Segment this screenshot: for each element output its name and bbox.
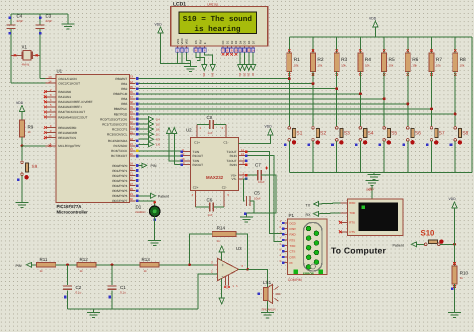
svg-text:ERROR: ERROR [303, 272, 315, 276]
svg-text:MAX232: MAX232 [206, 175, 224, 180]
svg-text:R8: R8 [460, 57, 466, 63]
svg-text:1k: 1k [144, 269, 148, 273]
svg-text:34: 34 [130, 80, 134, 84]
svg-text:C6: C6 [207, 198, 213, 203]
svg-text:RB1: RB1 [121, 82, 127, 86]
svg-text:C2-: C2- [222, 186, 227, 190]
svg-text:RS: RS [194, 40, 198, 44]
svg-text:RA4/T0CKI/C1OUT: RA4/T0CKI/C1OUT [58, 110, 85, 114]
svg-text:10k: 10k [294, 63, 299, 67]
svg-text:C1: C1 [120, 285, 126, 290]
svg-text:PIN: PIN [151, 164, 157, 168]
svg-text:RB3/PGM: RB3/PGM [113, 92, 127, 96]
svg-text:VEE: VEE [185, 39, 189, 45]
svg-text:23: 23 [130, 137, 134, 141]
svg-text:RD5/PSP5: RD5/PSP5 [112, 189, 127, 193]
svg-text:10k: 10k [365, 63, 370, 67]
svg-text:RD7/PSP7: RD7/PSP7 [112, 199, 127, 203]
svg-text:S3: S3 [344, 130, 350, 136]
svg-text:36: 36 [130, 90, 134, 94]
svg-text:27: 27 [130, 182, 134, 186]
svg-text:1k: 1k [460, 276, 464, 280]
svg-text:U2: U2 [186, 128, 192, 133]
svg-text:VDD: VDD [155, 23, 163, 27]
svg-text:RI: RI [290, 261, 293, 265]
svg-text:RE2/AN7/CS: RE2/AN7/CS [58, 136, 76, 140]
svg-text:28: 28 [130, 187, 134, 191]
svg-text:RTS: RTS [290, 238, 296, 242]
svg-text:PIC16F877A: PIC16F877A [57, 204, 82, 209]
svg-text:D1: D1 [136, 205, 142, 210]
svg-text:R12: R12 [80, 257, 89, 262]
svg-text:18: 18 [130, 130, 134, 134]
svg-text:D6: D6 [156, 128, 160, 132]
svg-text:R2: R2 [317, 57, 323, 63]
svg-text:4MHz: 4MHz [22, 63, 30, 67]
svg-text:R2OUT: R2OUT [193, 163, 204, 167]
svg-text:VSS: VSS [176, 39, 180, 45]
svg-text:U3: U3 [236, 246, 242, 251]
svg-text:RXD: RXD [349, 201, 355, 205]
svg-text:S2: S2 [320, 130, 326, 136]
svg-text:Patient: Patient [393, 244, 404, 248]
svg-text:26: 26 [130, 152, 134, 156]
svg-text:10k: 10k [412, 63, 417, 67]
svg-text:13: 13 [48, 75, 52, 79]
svg-text:33: 33 [130, 75, 134, 79]
svg-text:11: 11 [239, 50, 242, 53]
svg-text:is hearing: is hearing [194, 25, 241, 34]
svg-text:C2+: C2+ [193, 186, 199, 190]
svg-text:RD6/PSP6: RD6/PSP6 [112, 194, 127, 198]
svg-text:20: 20 [130, 167, 134, 171]
svg-text:CTS: CTS [290, 250, 296, 254]
svg-text:D4: D4 [238, 73, 242, 77]
svg-text:10uF: 10uF [258, 180, 265, 184]
svg-text:22: 22 [130, 177, 134, 181]
svg-text:1k: 1k [28, 130, 32, 134]
svg-text:14: 14 [252, 50, 255, 53]
svg-text:R4: R4 [365, 57, 371, 63]
svg-text:TXD: TXD [290, 244, 296, 248]
svg-text:TX: TX [306, 203, 311, 207]
svg-text:14: 14 [48, 79, 52, 83]
svg-text:C3: C3 [46, 14, 52, 19]
svg-text:DTR: DTR [290, 255, 296, 259]
svg-text:C4: C4 [17, 14, 23, 19]
svg-text:U1: U1 [57, 69, 63, 74]
svg-text:25: 25 [130, 147, 134, 151]
svg-text:R11: R11 [40, 257, 48, 262]
svg-text:VDD: VDD [16, 101, 24, 105]
svg-text:RS: RS [156, 138, 160, 142]
svg-text:24: 24 [130, 142, 134, 146]
svg-text:C2: C2 [76, 285, 82, 290]
svg-text:D7: D7 [251, 73, 255, 77]
svg-text:E: E [203, 42, 207, 44]
svg-text:RD1/PSP1: RD1/PSP1 [112, 169, 127, 173]
svg-text:12: 12 [243, 50, 246, 53]
svg-text:RC0/T1OSO/T1CKI: RC0/T1OSO/T1CKI [100, 117, 127, 121]
svg-text:R10: R10 [460, 271, 469, 276]
svg-text:R1OUT: R1OUT [193, 154, 204, 158]
svg-text:C8: C8 [207, 115, 213, 120]
svg-text:RXD: RXD [290, 233, 296, 237]
svg-text:+: + [222, 262, 225, 267]
svg-text:RC1/T1OSI/CCP2: RC1/T1OSI/CCP2 [102, 122, 127, 126]
svg-text:RB7/PGD: RB7/PGD [114, 112, 128, 116]
svg-text:MCLR/Vpp/THV: MCLR/Vpp/THV [58, 144, 81, 148]
svg-text:R1IN: R1IN [230, 154, 237, 158]
svg-text:D5: D5 [156, 122, 160, 126]
svg-text:OSC1/CLKIN: OSC1/CLKIN [58, 77, 76, 81]
svg-text:10k: 10k [436, 63, 441, 67]
svg-text:1uF: 1uF [208, 213, 213, 217]
svg-text:Microcontroller: Microcontroller [57, 209, 89, 214]
svg-text:R1: R1 [294, 57, 300, 63]
svg-text:C5: C5 [254, 191, 260, 196]
svg-text:S1: S1 [296, 130, 302, 136]
svg-text:R3: R3 [341, 57, 347, 63]
svg-text:10k: 10k [341, 63, 346, 67]
svg-text:GREEN: GREEN [136, 210, 146, 214]
svg-text:X1: X1 [22, 45, 28, 50]
svg-text:R14: R14 [217, 225, 226, 230]
svg-text:S5: S5 [391, 130, 397, 136]
svg-text:15: 15 [130, 115, 134, 119]
svg-text:13: 13 [241, 152, 245, 156]
svg-text:RE1/AN6/WR: RE1/AN6/WR [58, 131, 78, 135]
svg-text:DSR: DSR [290, 227, 296, 231]
svg-text:VS-: VS- [232, 177, 237, 181]
svg-text:To Computer: To Computer [331, 245, 386, 255]
svg-text:10k: 10k [460, 63, 465, 67]
svg-text:10k: 10k [389, 63, 394, 67]
svg-text:OSC2/CLKOUT: OSC2/CLKOUT [58, 81, 80, 85]
svg-text:C7: C7 [255, 163, 261, 168]
svg-text:19: 19 [130, 162, 134, 166]
svg-text:29: 29 [130, 192, 134, 196]
svg-text:17: 17 [130, 125, 134, 129]
svg-text:R5: R5 [389, 57, 395, 63]
svg-text:S10 = The sound: S10 = The sound [183, 15, 253, 24]
svg-text:22pF: 22pF [17, 19, 24, 23]
svg-text:R2IN: R2IN [230, 163, 237, 167]
svg-text:VDD: VDD [449, 197, 457, 201]
svg-text:39: 39 [130, 105, 134, 109]
svg-text:TXD: TXD [349, 211, 355, 215]
svg-text:Patient: Patient [158, 194, 169, 198]
svg-text:S7: S7 [439, 130, 445, 136]
svg-text:35: 35 [130, 85, 134, 89]
svg-text:LS1: LS1 [263, 280, 272, 285]
svg-text:RC3/SCK/SCL: RC3/SCK/SCL [107, 132, 128, 136]
svg-text:D7: D7 [251, 40, 255, 44]
svg-text:RB0/INT: RB0/INT [115, 77, 127, 81]
svg-text:RD3/PSP3: RD3/PSP3 [112, 179, 127, 183]
svg-text:1uF: 1uF [208, 131, 213, 135]
svg-text:0.1u: 0.1u [76, 291, 82, 295]
svg-text:10uF: 10uF [254, 196, 261, 200]
svg-text:RB5: RB5 [121, 102, 127, 106]
svg-text:R9: R9 [28, 125, 34, 130]
svg-text:RB6/PGC: RB6/PGC [114, 107, 128, 111]
svg-text:22pF: 22pF [46, 19, 53, 23]
svg-text:16: 16 [130, 120, 134, 124]
svg-text:VDD: VDD [369, 17, 377, 21]
svg-text:1k: 1k [80, 269, 84, 273]
svg-text:D5: D5 [242, 73, 246, 77]
svg-text:10k: 10k [317, 63, 322, 67]
svg-text:D4: D4 [156, 117, 160, 121]
svg-text:RA2/AN2/VREF-/CVREF: RA2/AN2/VREF-/CVREF [58, 100, 92, 104]
svg-text:CTS: CTS [349, 230, 355, 234]
svg-text:C1-: C1- [224, 141, 229, 145]
svg-text:10: 10 [48, 134, 52, 138]
svg-text:S10: S10 [421, 228, 436, 237]
svg-text:RC4/SDI/SDA: RC4/SDI/SDA [108, 139, 128, 143]
svg-text:37: 37 [130, 95, 134, 99]
svg-text:RS: RS [202, 73, 206, 77]
svg-text:SPEAKER: SPEAKER [262, 308, 277, 312]
svg-text:13: 13 [247, 50, 250, 53]
svg-text:EN: EN [156, 143, 160, 147]
svg-text:RX: RX [306, 213, 312, 217]
svg-text:RE0/AN5/RD: RE0/AN5/RD [58, 126, 77, 130]
svg-text:RA5/AN4/SS/C2OUT: RA5/AN4/SS/C2OUT [58, 115, 87, 119]
svg-text:S9: S9 [32, 164, 38, 169]
svg-text:S6: S6 [415, 130, 421, 136]
svg-text:RC7/RX/DT: RC7/RX/DT [111, 154, 127, 158]
svg-text:1k: 1k [40, 269, 44, 273]
svg-text:RB2: RB2 [121, 87, 127, 91]
svg-text:RD2/PSP2: RD2/PSP2 [112, 174, 127, 178]
svg-text:10: 10 [234, 50, 237, 53]
svg-text:DCD: DCD [290, 221, 296, 225]
svg-text:21: 21 [130, 172, 134, 176]
svg-text:RTS: RTS [349, 221, 355, 225]
svg-text:RA0/AN0: RA0/AN0 [58, 90, 71, 94]
svg-text:RD0/PSP0: RD0/PSP0 [112, 164, 127, 168]
svg-text:RW: RW [198, 39, 202, 44]
svg-text:VSS: VSS [366, 188, 372, 192]
svg-text:PIN: PIN [16, 264, 22, 268]
svg-text:C1+: C1+ [194, 141, 200, 145]
svg-text:EN: EN [211, 73, 215, 77]
svg-text:VDD: VDD [265, 124, 273, 128]
svg-text:S8: S8 [462, 130, 468, 136]
svg-text:D7: D7 [156, 133, 160, 137]
svg-text:RA1/AN1: RA1/AN1 [58, 95, 71, 99]
svg-text:COMPIM: COMPIM [288, 278, 302, 282]
svg-text:RC6/TX/CK: RC6/TX/CK [111, 149, 128, 153]
svg-text:RA3/AN3/VREF+: RA3/AN3/VREF+ [58, 105, 82, 109]
svg-text:P1: P1 [289, 213, 295, 218]
svg-text:1k: 1k [217, 239, 221, 243]
svg-text:R13: R13 [142, 257, 151, 262]
svg-text:38: 38 [130, 100, 134, 104]
svg-text:S4: S4 [367, 130, 373, 136]
svg-text:R6: R6 [412, 57, 418, 63]
svg-text:40: 40 [130, 110, 134, 114]
svg-text:RC5/SDO: RC5/SDO [114, 144, 128, 148]
svg-text:RB4: RB4 [121, 97, 127, 101]
svg-text:VDD: VDD [180, 38, 184, 44]
svg-text:0.1u: 0.1u [120, 291, 126, 295]
svg-text:RC2/CCP1: RC2/CCP1 [112, 127, 128, 131]
svg-text:RD4/PSP4: RD4/PSP4 [112, 184, 127, 188]
svg-text:R7: R7 [436, 57, 442, 63]
svg-text:30: 30 [130, 197, 134, 201]
